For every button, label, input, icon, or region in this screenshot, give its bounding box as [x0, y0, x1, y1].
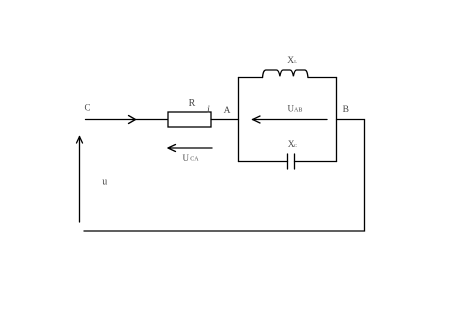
svg-text:AB: AB — [294, 108, 302, 114]
svg-text:A: A — [224, 106, 231, 116]
svg-text:u: u — [102, 177, 107, 188]
svg-text:B: B — [343, 105, 349, 115]
svg-text:X: X — [287, 56, 294, 66]
svg-text:CA: CA — [190, 157, 199, 163]
svg-text:C: C — [294, 143, 297, 148]
svg-text:C: C — [85, 103, 91, 113]
svg-text:U: U — [183, 153, 190, 163]
svg-text:L: L — [294, 59, 297, 64]
svg-text:i: i — [207, 105, 210, 116]
svg-text:R: R — [189, 98, 196, 109]
